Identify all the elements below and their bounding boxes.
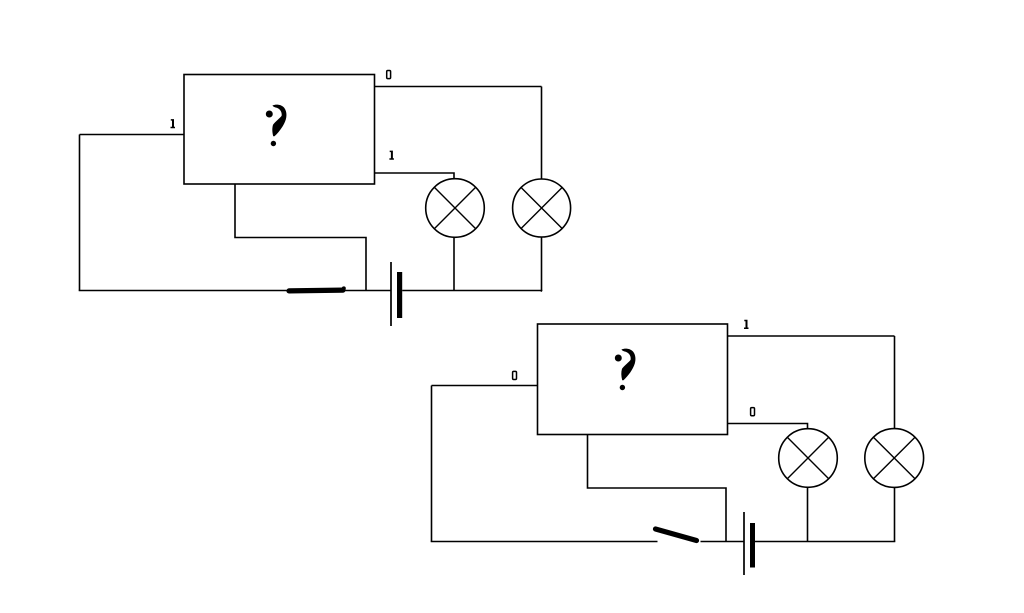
wire lower output (bottom circuit) [728, 424, 808, 430]
lamp L2 (right lamp, top circuit) [513, 179, 571, 237]
label 1 (top output, bottom circuit) [744, 320, 749, 329]
wire left vertical (top circuit) [79, 135, 81, 291]
wire box-bottom to battery node (top circuit) [235, 184, 366, 291]
label 1 (lower output, top circuit) [389, 151, 394, 160]
label 0 (input, bottom circuit) [513, 371, 517, 379]
battery B2 long plate [743, 512, 745, 575]
box U2 (unknown gate) [538, 324, 728, 435]
battery B2 short plate [750, 523, 755, 568]
lamp L1 (left lamp, top circuit) [426, 179, 485, 238]
wire left vertical (bottom circuit) [431, 386, 433, 542]
wire right vertical upper (bottom circuit) [894, 336, 896, 429]
wire lower output (top circuit) [375, 173, 455, 179]
wire box-bottom to battery node (bottom circuit) [588, 435, 727, 542]
battery B1 long plate [390, 262, 392, 326]
wire bottom middle segment (bottom circuit) [701, 541, 745, 543]
wire input (top circuit) [80, 134, 185, 136]
wire input (bottom circuit) [432, 385, 538, 387]
lamp L4 (right lamp, bottom circuit) [865, 429, 924, 488]
wire right vertical lower (top circuit) [541, 237, 544, 291]
wire lamp L1 to bottom (top circuit) [453, 237, 455, 290]
wire bottom right segment (top circuit) [402, 290, 542, 292]
lamp L3 (left lamp, bottom circuit) [779, 429, 838, 488]
label 1 (input, top circuit) [171, 119, 176, 128]
switch S1 closed [289, 286, 346, 291]
wire lamp L4 to bottom (bottom circuit) [894, 488, 896, 542]
label 0 (lower output, bottom circuit) [751, 408, 755, 416]
wire right vertical upper (top circuit) [541, 87, 543, 180]
box U1 (unknown gate) [184, 75, 375, 185]
switch S2 open [656, 529, 697, 541]
label 0 (top output, top circuit) [387, 71, 391, 79]
wire bottom right segment (bottom circuit) [755, 541, 895, 543]
wire lamp L3 to bottom (bottom circuit) [807, 487, 809, 542]
wire bottom left segment (bottom circuit) [431, 541, 658, 543]
battery B1 short plate [397, 272, 402, 318]
wire top output (top circuit) [375, 86, 542, 88]
question mark U2 [615, 349, 636, 391]
wire bottom left segment (top circuit) [79, 290, 391, 292]
wire top output (bottom circuit) [728, 335, 895, 337]
question mark U1 [266, 105, 287, 147]
